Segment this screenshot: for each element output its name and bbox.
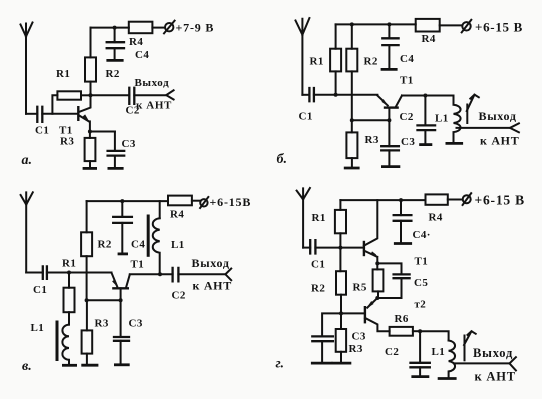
svg-text:т2: т2 [415,299,427,311]
svg-text:C2: C2 [172,290,186,302]
svg-text:+6-15В: +6-15В [210,195,252,209]
resistor R3 [336,329,346,352]
svg-text:+6-15 В: +6-15 В [475,20,523,35]
ground under R3 [83,364,97,367]
wire C3 bottom lead [120,341,122,365]
wire R3 top lead [89,132,91,138]
resistor R1 [330,49,341,72]
resistor R3 [346,132,357,158]
wire antenna to C1 [26,113,37,115]
wire R4 to supply terminal [440,24,462,26]
resistor R1 [335,210,346,233]
wire R3 top lead [340,313,342,329]
resistor R3 [85,138,96,161]
capacitor C1 [37,107,42,122]
svg-text:R1: R1 [56,68,70,80]
svg-text:к АНТ: к АНТ [193,279,232,293]
wire antenna to C1 [26,272,43,274]
wire base line of T2 [341,312,365,314]
svg-text:C2: C2 [400,111,414,123]
resistor R2 [346,49,357,72]
ground under C4 [395,242,410,245]
wire C1 to emitter of T1 [314,94,378,96]
resistor R4 [168,196,192,206]
svg-text:C1: C1 [35,125,49,137]
ground under L1 [439,377,455,380]
wire node to L1 [420,331,449,340]
wire R1 bottom lead [339,233,341,247]
capacitor C2 [411,363,430,368]
node R2/R3 junction [85,298,89,302]
ground under C2 [421,143,431,146]
wire collector line to C2 [130,273,173,275]
capacitor C2 [418,125,436,130]
wire collector rail [402,95,454,97]
wire C3 top lead [114,132,116,151]
wire R2 top lead [339,248,341,272]
svg-text:R4: R4 [422,33,436,45]
svg-text:R3: R3 [365,134,379,146]
wire C4 bottom lead [114,48,116,60]
node R1 tap [67,271,71,275]
wire C3 top lead [388,120,390,146]
ground under R3 [345,167,358,170]
ground under R3 [84,167,96,170]
svg-text:C5: C5 [414,277,428,289]
capacitor C1 [309,88,314,101]
transistor T1 (npn) [364,200,378,263]
svg-text:в.: в. [22,359,32,374]
wire R5 bottom lead [377,291,379,298]
svg-text:к АНТ: к АНТ [136,100,172,112]
inductor L1 (output) [449,341,455,379]
node collector junction [89,93,93,97]
svg-text:R2: R2 [98,239,112,251]
wire C1 to base of T1 [42,113,78,115]
svg-text:R3: R3 [95,318,109,330]
capacitor C1 [310,240,315,253]
node R6/C2/L1 junction [418,329,422,333]
wire C3 bottom lead [388,150,390,166]
capacitor C1 [43,266,47,279]
ground under C4 [108,59,122,62]
wire C5 bottom lead [377,278,401,298]
node base/R1/R2 junction [338,246,342,250]
CIRCUIT-V [21,192,232,365]
svg-text:б.: б. [277,152,288,167]
wire C2 bottom lead [419,367,421,376]
svg-text:L1: L1 [435,113,449,125]
resistor R2 [85,57,96,81]
wire supply rail [336,23,416,25]
svg-text:R3: R3 [60,136,74,148]
ground under R3 [333,362,350,365]
capacitor C2 [129,88,134,104]
svg-text:C1: C1 [311,259,325,271]
wire collector node to C2 [91,94,130,96]
wire antenna to C1 [303,247,310,249]
node emitter junction [375,261,379,265]
svg-text:T1: T1 [400,75,414,87]
svg-text:R2: R2 [364,56,378,68]
svg-text:C4·: C4· [413,229,431,241]
wire C2 to output [178,273,225,275]
svg-text:C4: C4 [400,53,414,65]
power terminal +6-15V [463,193,472,205]
node emitter junction [88,130,92,134]
wire R3 top lead [86,300,88,330]
svg-text:R4: R4 [170,209,184,221]
capacitor C4 [382,38,398,45]
capacitor C3 [312,336,333,341]
svg-text:C3: C3 [352,331,366,343]
resistor R1 [57,91,81,99]
wire C3 bottom lead [321,341,323,363]
wire emitter to C3 [90,131,115,133]
wire R6 to output node [413,330,420,332]
ground under C2 [413,375,428,378]
wire R5 top lead [376,263,378,269]
svg-text:C1: C1 [33,284,47,296]
ground under C3 [312,362,331,365]
svg-text:Выход: Выход [135,77,170,89]
node C4 tap [120,199,124,203]
ground under C4 [119,252,127,255]
svg-text:C4: C4 [135,49,149,61]
resistor R2 [81,232,92,256]
core of L1 [464,336,466,361]
svg-text:R4: R4 [129,36,143,48]
wire R2 bottom lead [351,71,353,120]
node R5/C5/T2 junction [375,296,379,300]
svg-text:к АНТ: к АНТ [480,134,519,148]
svg-text:C4: C4 [131,239,145,251]
output arrow to antenna [510,357,516,370]
svg-text:а.: а. [22,153,33,168]
resistor R1 [64,288,75,313]
resistor R6 [390,327,413,336]
CIRCUIT-A [21,21,175,169]
resistor R5 [373,269,384,291]
svg-text:R3: R3 [349,343,363,355]
ground under C4 [382,68,396,71]
wire R3 top lead [351,120,353,132]
wire C3 bottom lead [114,156,116,168]
svg-text:L1: L1 [31,322,45,334]
wire R1 top lead [68,273,70,288]
wire to C3 [322,313,341,336]
capacitor C2 [173,268,179,282]
node R1 tap [334,93,338,97]
wire R3 bottom lead [86,354,88,365]
wire R2 bottom lead [90,82,92,96]
inductor L1 [454,96,461,144]
svg-text:Выход: Выход [473,346,513,360]
svg-text:к АНТ: к АНТ [475,370,516,384]
svg-text:L1: L1 [432,346,446,358]
power terminal +6-15V [200,197,208,208]
wire C4 bottom lead [400,221,402,243]
wire R2 bottom lead (crosses input wire) [86,256,88,300]
capacitor C3 [114,337,129,341]
core of L1 [466,105,468,124]
svg-text:+7-9 В: +7-9 В [176,21,215,35]
node L1 tank junction [158,272,162,276]
resistor R3 [82,330,93,353]
svg-text:C3: C3 [401,136,415,148]
antenna W1 (circuit v) [21,192,33,272]
capacitor C3 [381,146,399,150]
node base/C3 junction [119,298,123,302]
svg-text:Выход: Выход [192,256,230,270]
svg-text:T1: T1 [131,259,145,271]
wire C1 to base of T1 [315,247,364,249]
svg-text:C1: C1 [299,111,313,123]
wire tank top lead [159,201,161,218]
wire supply rail [340,199,425,201]
wire R3 bottom lead [89,161,91,168]
svg-text:C3: C3 [129,318,143,330]
wire C4 top lead [400,200,402,215]
svg-text:R1: R1 [312,212,326,224]
capacitor C4 [107,42,124,48]
wire C4 bottom lead [388,45,390,69]
svg-text:R1: R1 [62,258,76,270]
wire output tap [457,127,511,129]
transistor T1 (common base) [112,273,130,301]
node C4 tap [399,198,403,202]
wire R3 bottom lead [351,158,353,168]
wire C2 top lead [419,331,421,363]
inductor L1 (tank) [153,218,160,274]
resistor R4 [426,194,448,204]
capacitor C4 [394,215,412,221]
svg-text:T1: T1 [415,256,429,268]
node R2/R3/base junction [339,311,343,315]
wire supply rail [91,27,129,29]
wire C4 top lead [388,24,390,38]
wire C4 top lead [121,201,123,217]
svg-text:г.: г. [276,357,284,372]
svg-text:R2: R2 [311,283,325,295]
wire R1 top lead [339,200,341,210]
resistor R2 [336,271,346,295]
wire base bias line [87,299,121,301]
wire output tap [455,362,510,364]
wire C1 to emitter of T1 [47,272,112,274]
wire R1 to L1 [68,312,70,324]
output arrow to antenna [510,123,519,132]
wire C2 top lead [424,96,426,126]
node R2 rail tap [350,22,354,26]
node C4 tap [113,26,117,30]
wire R2 top lead [351,24,353,48]
wire base line [352,119,390,121]
transistor T1 (common base) [377,96,402,121]
ground under C3 [109,167,122,170]
svg-text:R5: R5 [353,282,367,294]
wire R1 bottom lead [335,71,337,94]
wire R2 bottom lead [340,295,342,314]
node C4 rail tap [387,22,391,26]
transistor T1 (npn) [78,95,90,131]
antenna W1 (circuit b) [296,18,310,95]
wire emitter node to C5 [377,263,401,274]
svg-text:R4: R4 [429,212,443,224]
output arrow to antenna [166,90,173,99]
wire C2 to output [134,94,166,96]
svg-text:R1: R1 [310,56,324,68]
wire R1 top lead [335,24,337,48]
wire antenna to C1 [302,94,309,96]
antenna W1 (circuit g) [297,188,310,248]
trimmer arrow of L1 [464,331,476,345]
wire C4 bottom lead [121,223,123,254]
inductor L1 (emitter) [62,325,69,365]
antenna W1 (circuit a) [21,23,33,114]
trimmer arrow of L1 [467,95,479,111]
svg-text:+6-15 В: +6-15 В [475,193,525,208]
svg-text:C2: C2 [385,346,399,358]
svg-text:Выход: Выход [479,109,517,123]
core of tank L1 [147,216,150,255]
ground under C3 [115,363,128,366]
capacitor C3 [108,151,125,156]
CIRCUIT-G [297,188,516,379]
output arrow to antenna [225,269,231,281]
svg-text:R2: R2 [106,68,120,80]
capacitor C4 [113,217,132,223]
ground under C3 [382,165,399,168]
core of L1 [56,322,59,360]
wire base to R1 left [52,95,57,114]
wire R3 bottom lead [340,352,342,363]
svg-text:L1: L1 [171,239,185,251]
ground under L1 [63,364,75,367]
capacitor C5 [394,274,410,278]
node C2 tap [423,94,427,98]
wire C3 top lead [120,300,122,337]
svg-text:R6: R6 [395,313,409,325]
wire R1 to collector node [81,94,91,96]
resistor R4 [416,19,440,32]
wire C4 top lead [114,28,116,43]
wire C2 bottom lead [424,130,426,144]
ground under L1 [447,142,462,145]
node R2/R3 junction [350,118,354,122]
CIRCUIT-B [296,18,519,168]
transistor T2 (pnp) [365,298,390,331]
wire supply rail [87,200,168,202]
node base junction [387,118,391,122]
wire R2 top lead [90,28,92,58]
wire R4 to supply terminal [448,199,463,201]
wire R4 to supply terminal [192,200,200,202]
svg-text:C3: C3 [122,138,136,150]
wire R4 to supply terminal [152,27,164,29]
resistor R4 [129,22,153,34]
power terminal +7-9V [164,21,175,34]
wire R2 top lead [86,201,88,232]
power terminal +6-15V [462,20,472,33]
